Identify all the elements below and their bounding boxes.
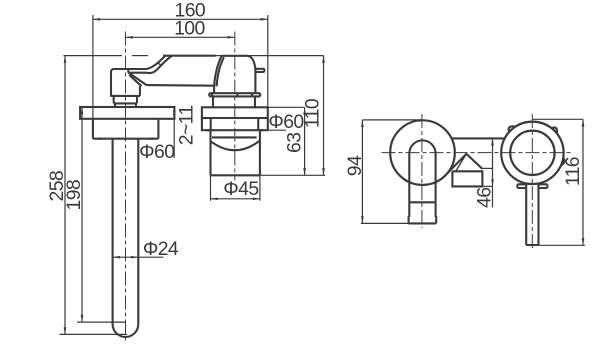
- handle escutcheon inner circle: [510, 131, 554, 175]
- spout body bottom: [110, 95, 140, 97]
- right wall plate divider: [202, 117, 268, 119]
- valve dome top: [222, 55, 248, 57]
- svg-text:198: 198: [63, 180, 85, 211]
- centerline valve: [234, 32, 236, 181]
- bracket box: [452, 171, 482, 186]
- dimension phi24 line: [113, 256, 164, 258]
- svg-text:116: 116: [562, 157, 584, 186]
- arm S-curve outer: [146, 56, 165, 69]
- dimension 258 line: [64, 56, 66, 335]
- supply cylinder sag arc: [211, 141, 260, 150]
- vertical centerline right: [531, 114, 533, 250]
- valve stub: [255, 69, 264, 72]
- extension line 198 bottom: [77, 321, 125, 323]
- dimension phi60 left arrows: [93, 137, 158, 140]
- vertical centerline left: [421, 114, 423, 228]
- top extension line: [64, 55, 324, 57]
- handle escutcheon outer circle: [501, 122, 563, 184]
- svg-text:Φ45: Φ45: [223, 178, 258, 200]
- dimension 110 line: [323, 56, 325, 176]
- arm underside wedge diagonal 1: [129, 73, 147, 86]
- extension 94 bottom: [361, 222, 436, 224]
- dimension 2~11 line: [173, 107, 175, 158]
- dimension phi45 line: [211, 198, 260, 200]
- spout neck step 1: [114, 96, 137, 104]
- arm underside wedge diagonal 2: [129, 75, 141, 86]
- arm bottom line: [147, 84, 215, 87]
- extension line 160 right: [267, 15, 269, 107]
- spout body right edge: [139, 86, 141, 96]
- svg-text:2~11: 2~11: [176, 105, 198, 145]
- dimension 100 arrows: [126, 36, 235, 39]
- bracket box bottom extension: [482, 185, 492, 187]
- extension 116 bottom: [527, 244, 586, 246]
- aerator: [409, 217, 437, 224]
- spout U-tube: [409, 140, 435, 202]
- valve neck: [213, 96, 255, 107]
- right wall plate outer rectangle: [202, 107, 268, 130]
- bottom extension line for 63 and 110: [260, 174, 325, 176]
- extension 46 middle: [482, 167, 492, 169]
- phi45 extension lines: [211, 175, 260, 201]
- escutcheon tab top-left: [509, 126, 515, 132]
- bracket top line: [452, 137, 505, 139]
- arm S-curve inner: [146, 56, 172, 73]
- valve dome right: [248, 56, 255, 93]
- escutcheon tab right: [561, 158, 565, 166]
- bracket chevron inner: [456, 154, 467, 172]
- svg-text:110: 110: [301, 98, 323, 128]
- dimension phi60 right extension: [268, 129, 286, 131]
- extension line 160 left: [92, 15, 94, 119]
- svg-text:Φ24: Φ24: [143, 238, 179, 260]
- pipe: [113, 139, 139, 324]
- dimension 160 line: [93, 18, 268, 20]
- arm top line: [163, 55, 216, 57]
- spout nozzle tick: [127, 69, 129, 73]
- valve dome left S outer: [214, 56, 222, 93]
- spout tube joint line: [409, 201, 435, 203]
- escutcheon tab top-right: [552, 127, 557, 133]
- dimension 46 line: [492, 138, 494, 207]
- centerline spout: [125, 32, 127, 343]
- valve dome left S inner: [217, 57, 224, 86]
- supply cylinder: [211, 130, 260, 175]
- plate top extension for 63: [268, 106, 305, 108]
- dimension phi60 right arrows: [202, 129, 268, 132]
- spout neck step 2: [115, 103, 136, 107]
- dimension 116 line: [582, 119, 584, 245]
- svg-text:Φ60: Φ60: [268, 111, 304, 133]
- svg-text:63: 63: [283, 133, 305, 153]
- dimension 100 line: [126, 36, 235, 38]
- extension 94 top: [362, 119, 422, 121]
- dimension 63 line: [304, 107, 306, 175]
- escutcheon circle left: [390, 120, 455, 185]
- extension 116 top: [532, 118, 583, 120]
- left wall plate inner section: [93, 119, 158, 139]
- bracket chevron: [448, 154, 483, 173]
- arm S break tick: [158, 63, 161, 66]
- svg-text:Φ60: Φ60: [139, 141, 175, 163]
- spout body: [111, 69, 146, 96]
- handle collar: [517, 184, 547, 188]
- dimension 94 line: [361, 120, 363, 223]
- left wall plate outer rectangle: [80, 107, 174, 119]
- extension line 258 bottom: [60, 333, 128, 335]
- spout nozzle band lower line: [128, 72, 146, 74]
- valve flange band: [209, 93, 260, 96]
- spout tube lower section: [409, 202, 435, 217]
- right wall plate inner verticals: [211, 118, 259, 130]
- dimension 198 line: [81, 107, 83, 322]
- svg-text:94: 94: [344, 155, 366, 176]
- handle lever: [526, 184, 538, 245]
- pipe bottom cap: [113, 324, 139, 337]
- svg-text:46: 46: [473, 188, 495, 208]
- supply cylinder top joint: [212, 136, 257, 138]
- horizontal centerline: [382, 152, 571, 154]
- dimension 160 arrows: [93, 18, 268, 21]
- svg-text:100: 100: [174, 18, 205, 40]
